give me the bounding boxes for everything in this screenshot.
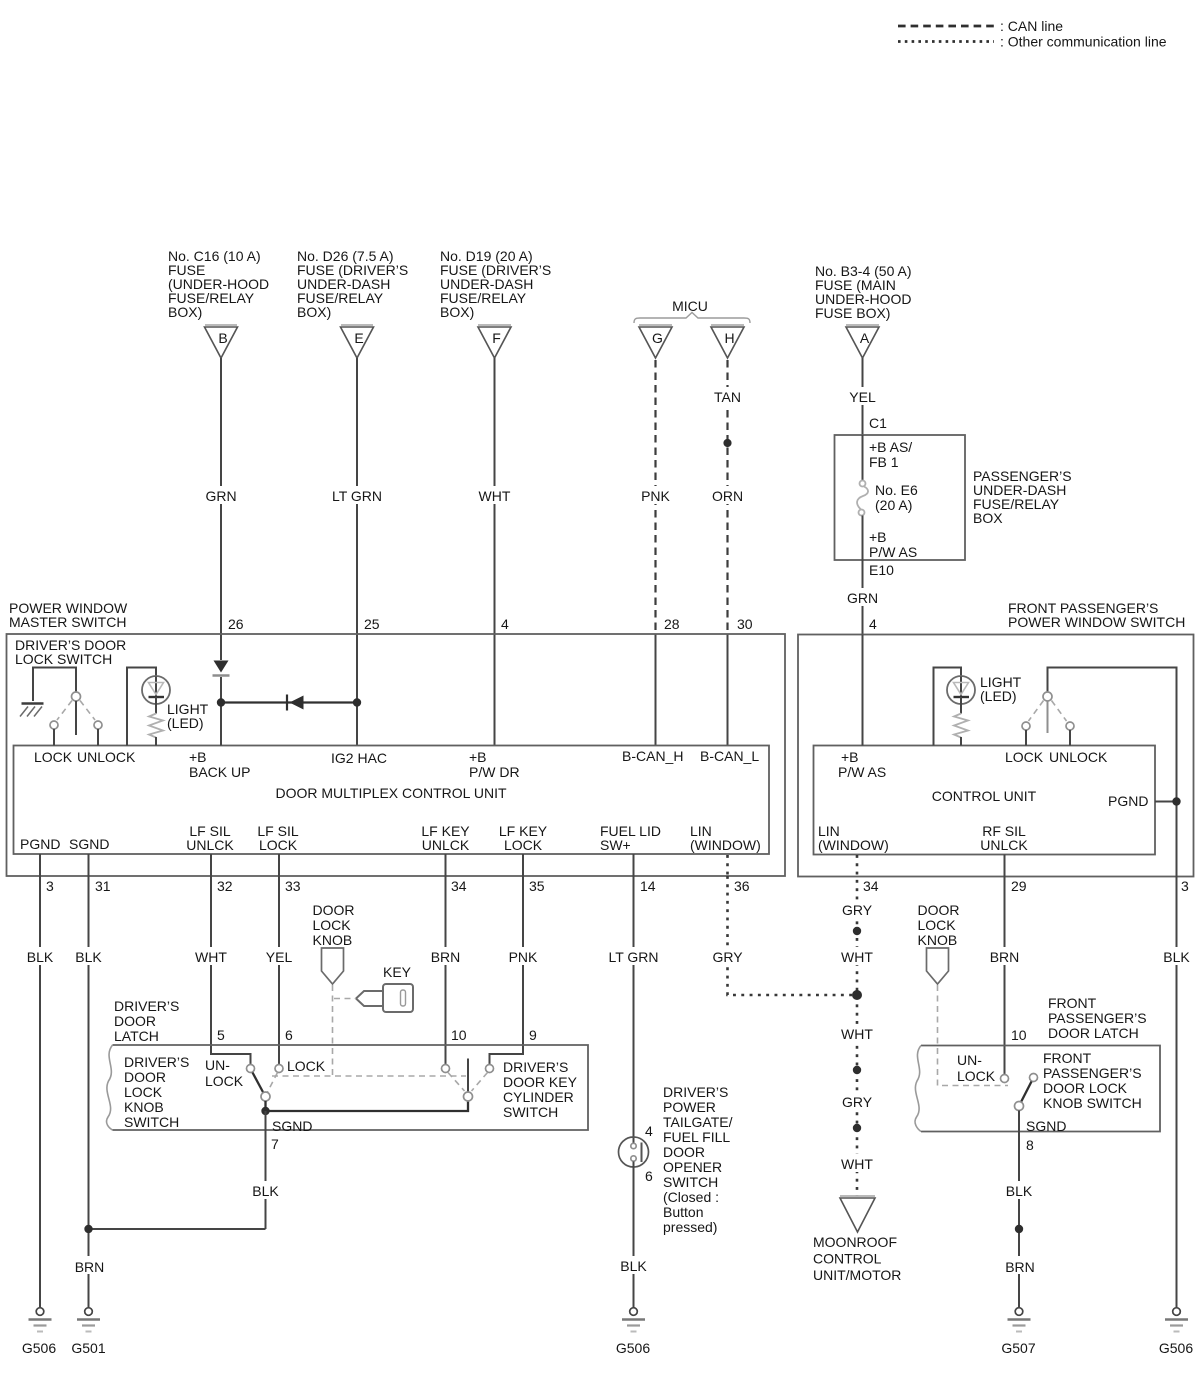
svg-text:KEY: KEY bbox=[383, 964, 412, 980]
svg-text:LOCK: LOCK bbox=[259, 837, 298, 853]
svg-text:G506: G506 bbox=[616, 1340, 650, 1356]
passenger knob switch blade bbox=[1021, 1082, 1032, 1103]
wire G inside box to B-CAN_H bbox=[655, 634, 657, 746]
wire inside fuse box lower bbox=[862, 516, 864, 561]
svg-text:DRIVER’S: DRIVER’S bbox=[503, 1059, 568, 1075]
svg-text:34: 34 bbox=[451, 878, 467, 894]
svg-text:PGND: PGND bbox=[1108, 793, 1148, 809]
svg-text:PASSENGER’S: PASSENGER’S bbox=[1043, 1065, 1142, 1081]
wire 14 LT GRN to fuel lid switch bbox=[633, 876, 635, 1143]
knob switch unlock contact bbox=[247, 1065, 255, 1073]
svg-text:34: 34 bbox=[863, 878, 879, 894]
fuel lid switch contacts bbox=[631, 1143, 636, 1148]
label WHT (3) bbox=[834, 1154, 880, 1172]
svg-text:H: H bbox=[724, 330, 734, 346]
svg-text:+B: +B bbox=[469, 749, 487, 765]
switch pivot bbox=[72, 692, 81, 701]
svg-text:G: G bbox=[652, 330, 663, 346]
lock contact bbox=[50, 721, 58, 729]
wire E10 to passenger box pin 4 bbox=[862, 560, 864, 635]
passenger lock switch top wire bbox=[1048, 668, 1177, 877]
wire label YEL (A) bbox=[839, 387, 886, 405]
wire label TAN (H) bbox=[704, 387, 751, 405]
PGND link to right wire bbox=[1155, 801, 1177, 803]
svg-text:BACK UP: BACK UP bbox=[189, 764, 250, 780]
svg-text:29: 29 bbox=[1011, 878, 1027, 894]
pin stub 33 bbox=[278, 854, 280, 876]
svg-text:(Closed :: (Closed : bbox=[663, 1189, 719, 1205]
label GRY (2) bbox=[834, 1092, 880, 1110]
svg-text:YEL: YEL bbox=[849, 389, 876, 405]
svg-text:MOONROOF: MOONROOF bbox=[813, 1234, 897, 1250]
svg-text:GRY: GRY bbox=[842, 902, 873, 918]
svg-text:G501: G501 bbox=[71, 1340, 105, 1356]
resistor to unit (passenger) bbox=[960, 737, 962, 746]
legend: other communication line sample bbox=[898, 40, 994, 43]
svg-text:CONTROL: CONTROL bbox=[813, 1251, 882, 1267]
pin stub PGND bbox=[39, 854, 41, 876]
knob switch dashed throw bbox=[268, 1073, 278, 1093]
wire label WHT (F) bbox=[471, 486, 519, 504]
svg-text:UNLCK: UNLCK bbox=[980, 837, 1028, 853]
svg-text:UNLOCK: UNLOCK bbox=[1049, 749, 1108, 765]
ground G506 (right) bbox=[1159, 1308, 1193, 1356]
svg-text:LOCK: LOCK bbox=[918, 917, 957, 933]
svg-text:POWER: POWER bbox=[663, 1099, 716, 1115]
junction dot wire 25 bbox=[353, 698, 361, 706]
pin stub 32 bbox=[210, 854, 212, 876]
ground hatch in switch bbox=[22, 702, 44, 705]
wire 34 BRN to key pin 10 bbox=[445, 876, 447, 1065]
svg-text:WHT: WHT bbox=[479, 488, 511, 504]
SGND link bar bbox=[266, 1101, 469, 1111]
LED feed wire (master) bbox=[127, 668, 156, 746]
svg-text:LT GRN: LT GRN bbox=[332, 488, 382, 504]
svg-text:E: E bbox=[354, 330, 363, 346]
svg-text:WHT: WHT bbox=[841, 1026, 873, 1042]
svg-text:DOOR: DOOR bbox=[114, 1013, 156, 1029]
door lock knob symbol (driver) bbox=[322, 948, 344, 984]
front passenger's power window switch outer box bbox=[798, 635, 1194, 877]
passenger LIN dotted wire 34 bbox=[856, 855, 859, 1196]
junction dot LIN lines bbox=[852, 990, 862, 1000]
driver's door lock switch: top wire bbox=[33, 668, 76, 702]
svg-text:GRY: GRY bbox=[712, 949, 743, 965]
connector dot 2 bbox=[853, 1066, 861, 1074]
svg-text:BLK: BLK bbox=[1006, 1183, 1033, 1199]
svg-text:28: 28 bbox=[664, 616, 680, 632]
ground G507 bbox=[1001, 1308, 1035, 1356]
svg-text:32: 32 bbox=[217, 878, 233, 894]
power window master switch outer box bbox=[7, 634, 786, 876]
svg-text:25: 25 bbox=[364, 616, 380, 632]
label WHT (1) bbox=[834, 947, 880, 965]
svg-text:3: 3 bbox=[1181, 878, 1189, 894]
svg-text:35: 35 bbox=[529, 878, 545, 894]
knob link dashed (driver) bbox=[332, 985, 334, 1076]
SGND to G501 link bbox=[89, 1228, 266, 1230]
svg-text:LT GRN: LT GRN bbox=[608, 949, 658, 965]
svg-text:GRY: GRY bbox=[842, 1094, 873, 1110]
LED feed wire (passenger) bbox=[934, 668, 962, 746]
key cylinder unlock contact bbox=[442, 1065, 450, 1073]
svg-text:7: 7 bbox=[271, 1136, 279, 1152]
key cylinder pivot bbox=[464, 1092, 473, 1101]
svg-text:WHT: WHT bbox=[841, 1156, 873, 1172]
passenger unlock contact drop bbox=[1069, 730, 1071, 746]
passenger knob switch open contact bbox=[1030, 1074, 1038, 1082]
svg-text:LOCK: LOCK bbox=[957, 1068, 996, 1084]
passenger lock contact drop bbox=[1025, 730, 1027, 746]
ground G501 bbox=[71, 1308, 105, 1356]
svg-text:No. E6: No. E6 bbox=[875, 482, 918, 498]
svg-text:OPENER: OPENER bbox=[663, 1159, 722, 1175]
svg-text:BOX: BOX bbox=[973, 510, 1003, 526]
svg-text:33: 33 bbox=[285, 878, 301, 894]
svg-text:IG2 HAC: IG2 HAC bbox=[331, 750, 387, 766]
svg-text:LATCH: LATCH bbox=[114, 1028, 159, 1044]
wire pin4 to +B P/W AS bbox=[862, 635, 864, 746]
diode link wire 26-25 bbox=[221, 701, 357, 703]
passenger lock contact bbox=[1022, 722, 1030, 730]
svg-text:(LED): (LED) bbox=[167, 715, 204, 731]
svg-text:KNOB SWITCH: KNOB SWITCH bbox=[1043, 1095, 1142, 1111]
legend: CAN line sample bbox=[898, 25, 994, 28]
wire label LT GRN (E) bbox=[327, 486, 387, 504]
wire B to pin 26 bbox=[220, 358, 222, 660]
wire H dashed CAN to box bbox=[726, 360, 728, 634]
svg-text:Button: Button bbox=[663, 1204, 703, 1220]
svg-text:CONTROL UNIT: CONTROL UNIT bbox=[932, 788, 1037, 804]
svg-text:DRIVER’S: DRIVER’S bbox=[663, 1084, 728, 1100]
svg-text:B-CAN_H: B-CAN_H bbox=[622, 748, 683, 764]
wire 29 BRN to passenger latch pin 10 bbox=[1004, 877, 1006, 1075]
door lock knob symbol (passenger) bbox=[927, 948, 949, 984]
svg-text:DOOR: DOOR bbox=[313, 902, 355, 918]
svg-text:B: B bbox=[218, 330, 227, 346]
svg-text:P/W AS: P/W AS bbox=[838, 764, 886, 780]
svg-text:ORN: ORN bbox=[712, 488, 743, 504]
wire 3 BLK to G506 (right) bbox=[1176, 877, 1178, 1308]
svg-text:8: 8 bbox=[1026, 1137, 1034, 1153]
svg-text:F: F bbox=[492, 330, 501, 346]
svg-text:TAN: TAN bbox=[714, 389, 741, 405]
wire fuel lid to G506 bbox=[633, 1162, 635, 1308]
svg-text:UNLOCK: UNLOCK bbox=[77, 749, 136, 765]
svg-text:BLK: BLK bbox=[27, 949, 54, 965]
svg-text:+B: +B bbox=[869, 529, 887, 545]
wire 26 below diode to unit bbox=[220, 677, 222, 746]
wire E to pin 25 bbox=[356, 358, 358, 746]
svg-text:: CAN line: : CAN line bbox=[1000, 18, 1063, 34]
wire 35 PNK to key pin 9 bbox=[490, 876, 524, 1065]
passenger switch dashed throw left bbox=[1029, 701, 1044, 722]
knob link dashed (passenger) bbox=[938, 985, 1009, 1086]
svg-text:LOCK: LOCK bbox=[1005, 749, 1044, 765]
wire SGND-8 to G507 bbox=[1018, 1111, 1020, 1308]
svg-text:PASSENGER’S: PASSENGER’S bbox=[1048, 1010, 1147, 1026]
svg-text:SGND: SGND bbox=[272, 1118, 312, 1134]
svg-text:6: 6 bbox=[645, 1168, 653, 1184]
pin stub 29 bbox=[1004, 855, 1006, 877]
LED resistor (passenger) bbox=[954, 714, 968, 738]
svg-text:LOCK: LOCK bbox=[205, 1073, 244, 1089]
svg-text:KNOB: KNOB bbox=[124, 1099, 164, 1115]
connector triangle E bbox=[341, 324, 373, 326]
svg-text:PNK: PNK bbox=[509, 949, 538, 965]
pin stub 14 bbox=[633, 854, 635, 876]
wire A to fuse box C1 bbox=[862, 358, 864, 480]
svg-text:G507: G507 bbox=[1001, 1340, 1035, 1356]
svg-text:LOCK: LOCK bbox=[504, 837, 543, 853]
wire label ORN (H) bbox=[704, 486, 751, 504]
svg-text:YEL: YEL bbox=[266, 949, 293, 965]
LED resistor (master) bbox=[149, 714, 163, 738]
diode D2 on link bbox=[290, 696, 304, 710]
connector triangle H bbox=[711, 324, 744, 326]
passenger's under-dash fuse/relay box outline bbox=[835, 435, 966, 560]
svg-text:DOOR LOCK: DOOR LOCK bbox=[1043, 1080, 1128, 1096]
lock contact drop bbox=[53, 729, 55, 746]
svg-text:6: 6 bbox=[285, 1027, 293, 1043]
svg-text:LOCK: LOCK bbox=[313, 917, 352, 933]
passenger unlock contact bbox=[1066, 722, 1074, 730]
front passenger's door latch box bbox=[921, 1046, 1160, 1132]
svg-text:UNLCK: UNLCK bbox=[186, 837, 234, 853]
svg-text:3: 3 bbox=[46, 878, 54, 894]
svg-text:10: 10 bbox=[1011, 1027, 1027, 1043]
svg-text:P/W AS: P/W AS bbox=[869, 544, 917, 560]
wire inside fuse box upper bbox=[862, 435, 864, 480]
MICU bracket bbox=[634, 313, 750, 324]
wire H inside box to B-CAN_L bbox=[727, 634, 729, 746]
driver's door latch torn edge bbox=[107, 1045, 113, 1130]
knob switch lock contact bbox=[275, 1065, 283, 1073]
wire 32 WHT to latch pin 5 bbox=[211, 876, 251, 1065]
svg-text:BOX): BOX) bbox=[168, 304, 202, 320]
svg-text:36: 36 bbox=[734, 878, 750, 894]
passenger switch blade bbox=[1047, 701, 1049, 733]
svg-text:A: A bbox=[860, 330, 870, 346]
svg-text:DOOR KEY: DOOR KEY bbox=[503, 1074, 578, 1090]
label GRY (1) bbox=[834, 900, 880, 918]
ground G506 (left) bbox=[22, 1308, 56, 1356]
svg-text:+B AS/: +B AS/ bbox=[869, 439, 912, 455]
connector triangle G bbox=[639, 324, 672, 326]
svg-text:(20 A): (20 A) bbox=[875, 497, 912, 513]
passenger knob switch pivot bbox=[1015, 1102, 1024, 1111]
connector dot on G507 wire bbox=[1015, 1225, 1023, 1233]
control unit inner box bbox=[814, 746, 1156, 855]
mechanical link dashed (knob to key cylinder) bbox=[272, 1075, 466, 1077]
svg-text:4: 4 bbox=[645, 1123, 653, 1139]
LED lamp circle (master) bbox=[142, 676, 170, 704]
passenger switch dashed throw right bbox=[1052, 701, 1067, 722]
svg-text:DOOR MULTIPLEX CONTROL UNIT: DOOR MULTIPLEX CONTROL UNIT bbox=[275, 785, 506, 801]
knob switch pivot bbox=[261, 1092, 270, 1101]
svg-text:DOOR: DOOR bbox=[918, 902, 960, 918]
junction dot PGND bbox=[1172, 797, 1180, 805]
svg-text:DOOR: DOOR bbox=[124, 1069, 166, 1085]
svg-text:BLK: BLK bbox=[75, 949, 102, 965]
svg-text:KNOB: KNOB bbox=[918, 932, 958, 948]
pin stub 36 dotted bbox=[726, 855, 729, 876]
svg-text:LOCK: LOCK bbox=[34, 749, 73, 765]
svg-text:+B: +B bbox=[189, 749, 207, 765]
junction dot SGND bbox=[261, 1107, 269, 1115]
svg-text:BRN: BRN bbox=[431, 949, 461, 965]
connector triangle B bbox=[205, 324, 237, 326]
svg-text:(WINDOW): (WINDOW) bbox=[690, 837, 761, 853]
svg-text:POWER WINDOW SWITCH: POWER WINDOW SWITCH bbox=[1008, 614, 1185, 630]
svg-text:E10: E10 bbox=[869, 562, 894, 578]
junction dot G501 wire bbox=[84, 1225, 92, 1233]
key cylinder dashed throw right bbox=[472, 1073, 488, 1092]
svg-text:pressed): pressed) bbox=[663, 1219, 717, 1235]
wire label GRN (A lower) bbox=[839, 588, 886, 606]
wire 36 GRY dotted bbox=[728, 876, 858, 995]
pin 7 wire SGND down bbox=[265, 1111, 267, 1229]
svg-text:FUEL FILL: FUEL FILL bbox=[663, 1129, 730, 1145]
svg-text:WHT: WHT bbox=[195, 949, 227, 965]
svg-text:MICU: MICU bbox=[672, 298, 708, 314]
svg-text:+B: +B bbox=[841, 749, 859, 765]
svg-text:31: 31 bbox=[95, 878, 111, 894]
wire F to pin 4 bbox=[494, 358, 496, 746]
fuse No. E6 symbol bbox=[860, 481, 866, 487]
knob switch blade bbox=[253, 1073, 264, 1094]
key link dashed bbox=[334, 998, 356, 1000]
svg-text:BRN: BRN bbox=[75, 1259, 105, 1275]
connector triangle F bbox=[478, 324, 511, 326]
connector dot 1 bbox=[853, 927, 861, 935]
svg-text:BLK: BLK bbox=[252, 1183, 279, 1199]
label WHT (2) bbox=[834, 1024, 880, 1042]
svg-text:WHT: WHT bbox=[841, 949, 873, 965]
fuel lid switch circle bbox=[619, 1137, 649, 1167]
svg-text:26: 26 bbox=[228, 616, 244, 632]
svg-text:TAILGATE/: TAILGATE/ bbox=[663, 1114, 733, 1130]
door multiplex control unit inner box bbox=[14, 746, 770, 855]
svg-text:10: 10 bbox=[451, 1027, 467, 1043]
wire SGND BLK/BRN to G501 bbox=[88, 876, 90, 1307]
svg-text:BRN: BRN bbox=[1005, 1259, 1035, 1275]
svg-text:MASTER SWITCH: MASTER SWITCH bbox=[9, 614, 126, 630]
switch blade neutral bbox=[75, 701, 77, 735]
svg-text:P/W DR: P/W DR bbox=[469, 764, 520, 780]
svg-text:C1: C1 bbox=[869, 415, 887, 431]
svg-text:BRN: BRN bbox=[990, 949, 1020, 965]
svg-text:SWITCH: SWITCH bbox=[663, 1174, 718, 1190]
svg-text:LOCK: LOCK bbox=[287, 1058, 326, 1074]
passenger switch pivot bbox=[1043, 692, 1052, 701]
svg-text:FUSE BOX): FUSE BOX) bbox=[815, 305, 890, 321]
resistor to unit bbox=[155, 737, 157, 746]
svg-text:UNLCK: UNLCK bbox=[422, 837, 470, 853]
svg-text:G506: G506 bbox=[22, 1340, 56, 1356]
svg-text:4: 4 bbox=[869, 616, 877, 632]
wire G dashed CAN to box bbox=[654, 360, 656, 634]
svg-text:BOX): BOX) bbox=[297, 304, 331, 320]
svg-text:9: 9 bbox=[529, 1027, 537, 1043]
svg-text:SWITCH: SWITCH bbox=[124, 1114, 179, 1130]
svg-text:BLK: BLK bbox=[620, 1258, 647, 1274]
key cylinder lock contact bbox=[486, 1065, 494, 1073]
passenger knob switch unlock contact bbox=[1001, 1075, 1009, 1083]
svg-text:DOOR: DOOR bbox=[663, 1144, 705, 1160]
svg-text:KNOB: KNOB bbox=[313, 932, 353, 948]
svg-text:FRONT: FRONT bbox=[1043, 1050, 1092, 1066]
svg-text:GRN: GRN bbox=[847, 590, 878, 606]
svg-text:CYLINDER: CYLINDER bbox=[503, 1089, 574, 1105]
junction dot wire 26 bbox=[217, 698, 225, 706]
svg-text:PGND: PGND bbox=[20, 836, 60, 852]
unlock contact bbox=[94, 721, 102, 729]
svg-text:: Other communication line: : Other communication line bbox=[1000, 34, 1167, 50]
svg-text:30: 30 bbox=[737, 616, 753, 632]
ground G506 (center) bbox=[616, 1308, 650, 1356]
svg-text:DOOR LATCH: DOOR LATCH bbox=[1048, 1025, 1139, 1041]
svg-text:PNK: PNK bbox=[641, 488, 670, 504]
svg-text:UNIT/MOTOR: UNIT/MOTOR bbox=[813, 1267, 901, 1283]
svg-text:14: 14 bbox=[640, 878, 656, 894]
pin stub 35 bbox=[522, 854, 524, 876]
svg-text:GRN: GRN bbox=[205, 488, 236, 504]
svg-text:LOCK: LOCK bbox=[124, 1084, 163, 1100]
svg-text:BOX): BOX) bbox=[440, 304, 474, 320]
svg-text:G506: G506 bbox=[1159, 1340, 1193, 1356]
svg-text:(WINDOW): (WINDOW) bbox=[818, 837, 889, 853]
svg-text:DRIVER’S: DRIVER’S bbox=[124, 1054, 189, 1070]
svg-text:LOCK SWITCH: LOCK SWITCH bbox=[15, 651, 112, 667]
passenger latch torn edge bbox=[915, 1046, 921, 1132]
driver's door latch box bbox=[113, 1045, 589, 1130]
unlock contact drop bbox=[97, 729, 99, 746]
svg-text:FRONT: FRONT bbox=[1048, 995, 1097, 1011]
svg-text:SWITCH: SWITCH bbox=[503, 1104, 558, 1120]
key symbol bbox=[356, 991, 383, 1006]
wire 33 YEL to latch pin 6 bbox=[278, 876, 280, 1065]
pin stub 34 bbox=[445, 854, 447, 876]
svg-text:BLK: BLK bbox=[1163, 949, 1190, 965]
svg-text:UN-: UN- bbox=[957, 1052, 982, 1068]
wire PGND BLK to G506 bbox=[39, 876, 41, 1307]
key cylinder blade bbox=[467, 1059, 469, 1093]
svg-text:4: 4 bbox=[501, 616, 509, 632]
svg-text:SGND: SGND bbox=[69, 836, 109, 852]
moonroof connector triangle bbox=[840, 1195, 875, 1197]
connector triangle A bbox=[846, 324, 879, 326]
svg-text:SGND: SGND bbox=[1026, 1118, 1066, 1134]
svg-text:FB 1: FB 1 bbox=[869, 454, 899, 470]
svg-text:B-CAN_L: B-CAN_L bbox=[700, 748, 759, 764]
switch dashed throw left bbox=[57, 701, 72, 721]
wire label GRN (B) bbox=[197, 486, 245, 504]
LED lamp circle (passenger) bbox=[947, 676, 975, 704]
pin stub SGND bbox=[88, 854, 90, 876]
svg-text:DRIVER’S: DRIVER’S bbox=[114, 998, 179, 1014]
fuel lid switch plunger bbox=[641, 1143, 643, 1163]
junction dot on H wire bbox=[723, 439, 731, 447]
key cylinder dashed throw left bbox=[448, 1073, 465, 1092]
svg-text:SW+: SW+ bbox=[600, 837, 631, 853]
wire label PNK (G) bbox=[632, 486, 680, 504]
svg-text:(LED): (LED) bbox=[980, 688, 1017, 704]
connector dot 3 bbox=[853, 1124, 861, 1132]
svg-text:UN-: UN- bbox=[205, 1057, 230, 1073]
diode D1 on wire 26 bbox=[214, 661, 229, 673]
switch dashed throw right bbox=[80, 701, 95, 721]
